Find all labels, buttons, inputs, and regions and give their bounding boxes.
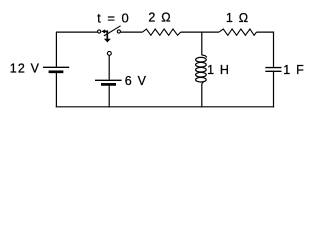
switch S1 motion arrow (down head) bbox=[104, 39, 111, 43]
wire left vertical upper bbox=[55, 32, 57, 67]
svg-text:t = 0: t = 0 bbox=[97, 11, 130, 26]
resistor R1 2ohm zigzag bbox=[143, 29, 181, 35]
inductor L1 coil bbox=[196, 55, 207, 86]
svg-text:1 H: 1 H bbox=[207, 63, 230, 77]
switch S1 left contact bbox=[98, 30, 101, 33]
wire switch to 2ohm bbox=[121, 31, 143, 33]
wire right vertical lower bbox=[273, 72, 275, 108]
switch S1 motion arrow elbow bbox=[105, 30, 108, 39]
switch S1 blade bbox=[104, 26, 121, 36]
wire 2ohm to 1ohm (through node) bbox=[181, 31, 219, 33]
battery V2 6V plates bbox=[95, 80, 122, 84]
wire 6V battery to bottom wire bbox=[108, 85, 110, 107]
switch S1 bottom throw contact bbox=[107, 51, 111, 55]
resistor R2 1ohm zigzag bbox=[219, 29, 257, 35]
capacitor C1 plates bbox=[265, 68, 281, 72]
switch S1 right contact bbox=[117, 30, 120, 33]
wire right vertical upper bbox=[273, 32, 275, 67]
svg-text:2 Ω: 2 Ω bbox=[148, 11, 171, 25]
svg-text:12 V: 12 V bbox=[10, 62, 41, 76]
svg-text:1 Ω: 1 Ω bbox=[226, 11, 249, 25]
switch S1 motion arrow (left head) bbox=[101, 29, 105, 33]
svg-text:1 F: 1 F bbox=[283, 63, 305, 77]
svg-text:6 V: 6 V bbox=[125, 74, 147, 88]
wire bottom horizontal bbox=[56, 106, 274, 108]
wire left vertical lower bbox=[55, 73, 57, 108]
battery V1 12V plates bbox=[43, 67, 69, 72]
node A: inductor branch junction, wire down from top bbox=[201, 32, 203, 55]
wire 6V branch: throw contact down to battery bbox=[108, 56, 110, 80]
wire top-left horizontal bbox=[56, 31, 97, 33]
wire inductor to bottom bbox=[201, 85, 203, 107]
wire 1ohm to top-right corner bbox=[257, 31, 275, 33]
